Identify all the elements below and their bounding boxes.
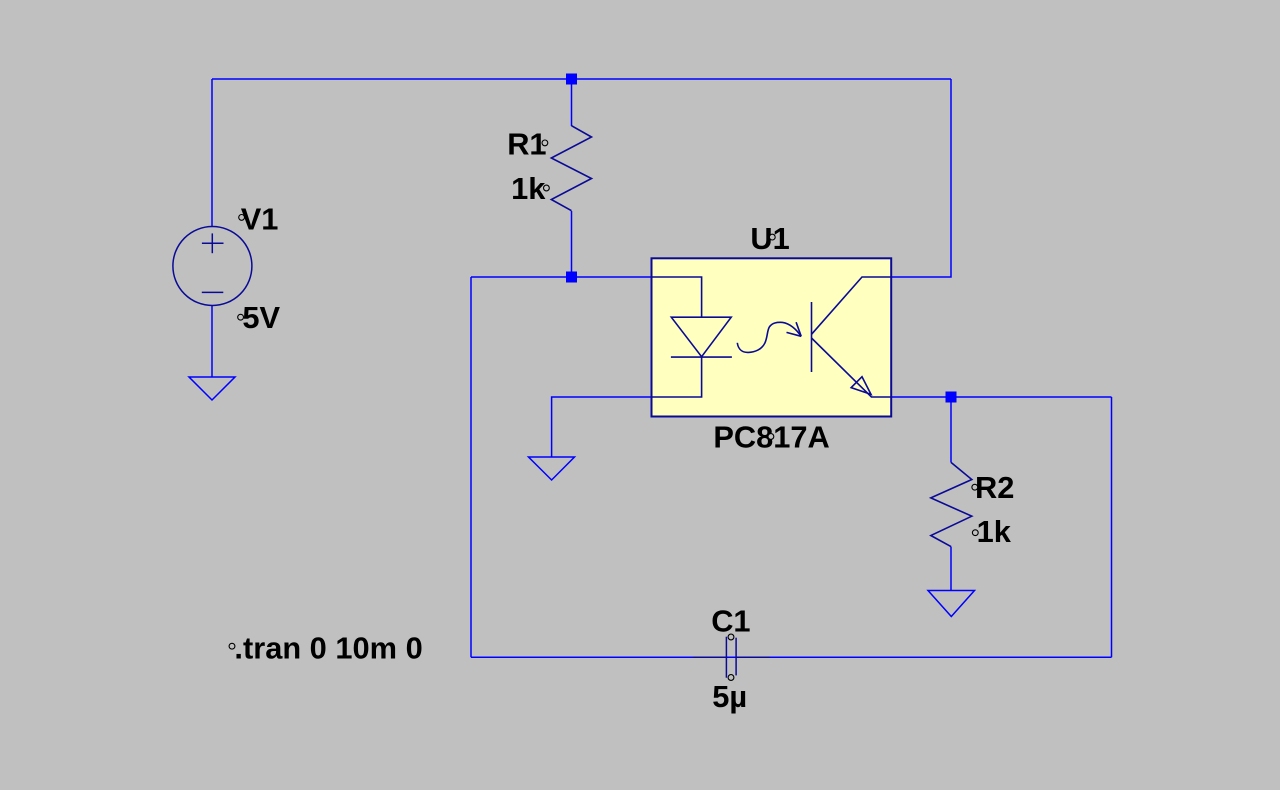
anchor 5V [238,314,244,320]
resistor R1 [551,126,591,211]
svg-text:5µ: 5µ [712,679,747,714]
anchor R2 [972,484,978,490]
voltage source V1 [173,227,252,306]
capacitor C1 [693,637,770,678]
anchor 5u [728,675,734,681]
anchor PC817A [768,434,774,440]
light arrow inside U1 [737,322,801,352]
anchor 1k of R1 [544,185,550,191]
LED diode inside U1 [652,277,732,397]
ground under R2 [928,591,975,617]
resistor R2 [931,462,972,546]
wire cathode to ground [552,397,652,457]
svg-text:1k: 1k [977,514,1012,549]
ground under V1 [189,377,235,400]
wire R1 top lead [571,79,573,126]
anchor U1 [769,234,775,240]
anchor V1 [239,215,245,221]
wire left vertical [470,277,472,657]
svg-text:5V: 5V [242,300,280,335]
anchor .tran [229,643,235,649]
ground under cathode [529,457,575,480]
optocoupler U1 body [652,258,892,416]
anchor C1 [728,634,734,640]
phototransistor inside U1 [812,277,892,397]
wire R2 top lead [950,397,952,462]
wire right vertical [1111,397,1113,657]
node junction mid [566,272,577,283]
wire top rail [212,78,951,80]
wire V1 top lead [211,79,213,227]
wire mid horizontal to anode [471,276,652,278]
anchor R1 [542,140,548,146]
svg-text:.tran 0 10m 0: .tran 0 10m 0 [234,631,422,666]
svg-text:C1: C1 [711,604,750,639]
wire R1 bottom lead [571,211,573,277]
svg-text:1k: 1k [511,171,546,206]
wire V1 bottom lead [211,305,213,377]
wire bottom rail [471,656,1112,658]
node junction top [566,74,577,85]
wire emitter to right [891,396,1111,398]
node junction right [946,392,957,403]
wire R2 bottom lead [950,547,952,591]
svg-text:R1: R1 [507,126,546,161]
svg-text:V1: V1 [241,202,279,237]
anchor 1k of R2 [972,530,978,536]
svg-text:R2: R2 [975,470,1014,505]
wire right top vertical [891,79,951,277]
